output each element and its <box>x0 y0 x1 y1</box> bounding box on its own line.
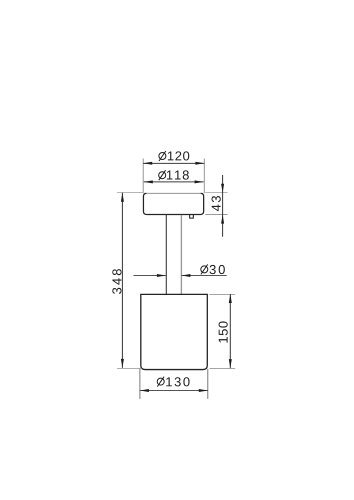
dimension D118: diameter symbol <box>159 170 166 180</box>
dimension D130: value text 130 <box>166 377 189 386</box>
dimension 150: value text 150 rotated <box>219 321 228 342</box>
stem right edge line <box>180 215 182 294</box>
dimension 150: bottom extension line <box>210 367 236 369</box>
dimension D120: dimension line <box>143 162 204 164</box>
dimension D120: right arrow <box>195 162 204 165</box>
dimension 43: top extension line <box>205 191 227 193</box>
dimension 43: value text 43 rotated <box>212 196 221 211</box>
dimension D120: right extension line <box>203 159 205 194</box>
dimension 150: dimension line <box>229 294 231 368</box>
dimension D130: dimension line <box>140 390 208 392</box>
dimension 348: bottom arrow pointing down <box>121 359 124 368</box>
dimension D130: right extension line <box>207 369 209 399</box>
dimension D120: left arrow <box>143 162 152 165</box>
dimension 348: bottom extension line <box>117 367 141 369</box>
dimension 348: dimension line <box>121 193 123 368</box>
dimension D118: dimension line <box>144 181 204 183</box>
dimension 43: dimension line <box>222 175 224 237</box>
dimension D30: value text 30 <box>210 265 225 274</box>
stem left edge line <box>165 215 167 294</box>
switch button under head <box>190 215 194 218</box>
dimension D120: value text 120 <box>168 151 189 160</box>
dimension 150: bottom arrow pointing down <box>229 359 232 368</box>
dimension 348: value text 348 rotated <box>112 269 121 294</box>
lamp base outline <box>141 294 208 369</box>
dimension D120: diameter symbol <box>159 151 166 161</box>
dimension D118: value text 118 <box>167 170 189 179</box>
dimension 43: upper arrow pointing down <box>221 184 224 193</box>
lamp head top edge (light) <box>144 192 203 194</box>
dimension D118: left arrow <box>144 180 153 183</box>
dimension 348: top arrow pointing up <box>121 193 124 202</box>
dimension 150: top arrow pointing up <box>229 294 232 303</box>
dimension D130: right arrow <box>199 389 208 392</box>
dimension 150: top extension line <box>209 293 235 295</box>
dimension 43: bottom extension line <box>205 214 227 216</box>
dimension 348: top extension line <box>117 191 143 193</box>
dimension D130: diameter symbol <box>157 377 164 387</box>
lamp head outline <box>143 193 203 214</box>
dimension D130: left arrow <box>140 389 149 392</box>
dimension D30: left dimension line with arrow <box>134 274 166 277</box>
dimension D130: left extension line <box>139 369 141 399</box>
dimension D120: left extension line <box>142 159 144 194</box>
dimension D30: right dimension line with arrow <box>181 274 226 277</box>
dimension 43: lower arrow pointing up <box>221 215 224 224</box>
dimension D30: diameter symbol <box>201 264 208 274</box>
dimension D118: right arrow <box>195 180 204 183</box>
